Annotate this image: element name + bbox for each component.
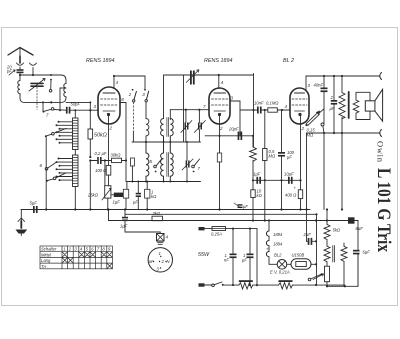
tube V2 grid2 bbox=[212, 104, 229, 106]
coil L5 osc bbox=[146, 102, 149, 142]
switch S5 bbox=[150, 159, 163, 173]
wire top anode run V1 bbox=[114, 75, 145, 77]
svg-text:RENS 1894: RENS 1894 bbox=[86, 58, 114, 64]
switch lower right bbox=[308, 273, 322, 281]
switch S3 bbox=[142, 76, 148, 102]
svg-text:E V, 0,21A: E V, 0,21A bbox=[270, 270, 290, 275]
svg-text:2: 2 bbox=[301, 126, 305, 131]
svg-text:µF: µF bbox=[242, 258, 247, 263]
svg-text:3: 3 bbox=[231, 96, 234, 101]
svg-text:8: 8 bbox=[121, 97, 124, 102]
svg-text:4: 4 bbox=[80, 247, 83, 252]
wire output bottom bbox=[307, 132, 380, 134]
connector output top bbox=[380, 73, 382, 80]
svg-text:U150B: U150B bbox=[292, 253, 305, 258]
wire V1 screen right bbox=[120, 103, 126, 161]
wire feedback 20pF run bbox=[205, 135, 253, 137]
wire V2 screen right bbox=[230, 101, 240, 136]
svg-text:2: 2 bbox=[330, 95, 334, 100]
resistor V2 cathode bbox=[217, 136, 221, 210]
coil L6 row2 bbox=[146, 142, 149, 182]
svg-text:9: 9 bbox=[108, 247, 111, 252]
svg-text:10nF: 10nF bbox=[254, 101, 264, 106]
wire drop mid bbox=[183, 75, 185, 142]
svg-text:4: 4 bbox=[285, 104, 288, 109]
svg-text:1: 1 bbox=[63, 247, 65, 252]
coil L4 bank2 bbox=[73, 150, 79, 210]
capacitor 0,2uF bbox=[90, 151, 111, 164]
svg-text:4: 4 bbox=[166, 235, 169, 240]
wire V2 anode-grid coupling bbox=[240, 109, 254, 111]
svg-text:5: 5 bbox=[150, 159, 153, 164]
tube V3 anode bbox=[295, 92, 305, 94]
capacitor 1uF below bus bbox=[120, 214, 160, 232]
pilot lamp EV 0,21A bbox=[270, 260, 291, 275]
tube V2 cathode bbox=[214, 110, 226, 112]
coil L3 bank1 bbox=[73, 110, 79, 149]
fuse 0,25A bbox=[205, 227, 258, 237]
electrolytic 8uF block bbox=[348, 217, 363, 231]
speaker bbox=[356, 89, 383, 121]
dial lamp bbox=[157, 232, 169, 244]
tube V1 grid1 bbox=[101, 98, 118, 100]
svg-text:40nF: 40nF bbox=[314, 83, 324, 88]
svg-text:M: M bbox=[149, 259, 153, 264]
tube V3 envelope bbox=[290, 88, 309, 124]
svg-text:400 Ω: 400 Ω bbox=[285, 193, 297, 198]
svg-text:5µF: 5µF bbox=[30, 201, 38, 206]
node tuned bottom bbox=[50, 101, 52, 103]
wire V2 anode up bbox=[218, 75, 220, 89]
resistor 10k bbox=[251, 189, 263, 221]
svg-text:µF: µF bbox=[330, 106, 335, 111]
svg-text:4: 4 bbox=[116, 80, 119, 85]
antenna socket A2 bbox=[30, 63, 37, 65]
trimmer C-t2 bbox=[194, 109, 205, 142]
svg-text:TA: TA bbox=[41, 264, 46, 269]
output transformer secondary bbox=[353, 100, 359, 113]
transformer lower right winding bbox=[341, 243, 347, 287]
capacitor 5uF series bbox=[30, 201, 38, 214]
svg-text:MΩ: MΩ bbox=[269, 154, 276, 159]
capacitor 40nF bbox=[314, 76, 328, 109]
svg-text:6µF: 6µF bbox=[363, 250, 371, 255]
svg-text:6: 6 bbox=[91, 247, 94, 252]
connector output bottom bbox=[380, 130, 382, 137]
coil L2 bbox=[64, 84, 66, 97]
wire V1 cathode down bbox=[108, 116, 110, 165]
capacitor 2uF coupling bbox=[330, 76, 338, 133]
svg-text:µF: µF bbox=[133, 200, 138, 205]
switch S7 bbox=[43, 108, 54, 118]
wire row2 bottom bus bbox=[127, 181, 201, 183]
wire S2 dashed drop bbox=[132, 102, 134, 131]
IF transformer T1 primary bbox=[161, 119, 164, 143]
output transformer primary bbox=[339, 76, 345, 133]
capacitor 50pF bbox=[66, 102, 81, 114]
IF transformer T1 secondary bbox=[170, 119, 173, 143]
wire speaker return drops bbox=[324, 133, 342, 210]
svg-text:kΩ: kΩ bbox=[257, 193, 263, 198]
switch arm S6 bbox=[40, 162, 58, 170]
svg-text:30kΩ: 30kΩ bbox=[111, 153, 122, 158]
svg-text:3: 3 bbox=[157, 267, 160, 272]
capacitor 1uF bbox=[253, 172, 261, 184]
svg-text:+: + bbox=[294, 186, 297, 191]
resistor 3k in W2 bbox=[152, 211, 163, 221]
svg-text:2: 2 bbox=[161, 259, 165, 264]
capacitor mains c1 bbox=[224, 228, 237, 287]
svg-text:7: 7 bbox=[46, 113, 49, 118]
wire bus W1 bbox=[125, 210, 317, 215]
wire V3 cathode down bbox=[300, 116, 302, 190]
svg-text:7: 7 bbox=[97, 247, 100, 252]
component row: resistor r-b bbox=[145, 181, 157, 210]
barretter U150B bbox=[291, 253, 316, 270]
capacitor mains c2 bbox=[242, 228, 254, 287]
potentiometer hum bbox=[313, 266, 330, 286]
capacitor 20pF antenna bbox=[6, 65, 24, 76]
svg-text:0,25A: 0,25A bbox=[211, 232, 222, 237]
svg-text:55W: 55W bbox=[198, 252, 210, 258]
svg-text:3: 3 bbox=[142, 92, 145, 97]
potentiometer 0,15M bbox=[305, 109, 324, 138]
capacitor 6uF bbox=[353, 221, 370, 287]
svg-text:BL 2: BL 2 bbox=[283, 58, 294, 64]
svg-text:N: N bbox=[167, 259, 171, 264]
switch arm S-bank1 bbox=[45, 128, 66, 137]
transformer lower left winding bbox=[324, 246, 330, 266]
heater resistor 2 bbox=[279, 280, 345, 289]
wire coil tap bbox=[60, 88, 66, 110]
component row: capacitor c-b bbox=[133, 181, 141, 210]
capacitor 10uF bbox=[284, 172, 297, 191]
transformer lower core bbox=[333, 246, 335, 263]
switch bank 1 contacts bbox=[56, 121, 73, 144]
wire mains right drop bbox=[256, 229, 258, 286]
X marks Lang bbox=[62, 257, 68, 263]
svg-text:3: 3 bbox=[94, 104, 97, 109]
trimmer C-t3 bbox=[182, 141, 193, 182]
capacitor 2uF lower bbox=[303, 232, 318, 245]
svg-text:µF: µF bbox=[243, 204, 248, 209]
resistor 100 ohm cathode bbox=[90, 161, 110, 210]
svg-text:µF: µF bbox=[287, 155, 292, 160]
svg-text:1: 1 bbox=[159, 251, 161, 256]
wire bottom right run bbox=[345, 254, 358, 286]
svg-text:BL2: BL2 bbox=[274, 253, 282, 258]
switch mains bbox=[205, 282, 239, 287]
resistor zigzag anode load bbox=[250, 147, 257, 190]
capacitor 20pF bbox=[228, 127, 242, 141]
heater resistor 1 bbox=[239, 280, 279, 289]
wire right column main bbox=[316, 214, 318, 285]
wire A2 down bbox=[32, 68, 34, 76]
switch S4 row2 bbox=[192, 159, 201, 172]
svg-text:1µF: 1µF bbox=[120, 224, 128, 229]
svg-text:7: 7 bbox=[203, 104, 206, 109]
tube V1 grid2 bbox=[101, 104, 118, 106]
svg-text:0,2 µF: 0,2 µF bbox=[95, 151, 107, 156]
bus junction dots bbox=[45, 208, 47, 210]
resistor 0,1M grid stopper bbox=[266, 101, 290, 113]
node antenna junction bbox=[19, 74, 21, 76]
mains terminal top bbox=[199, 227, 205, 230]
wire V1 anode up bbox=[113, 76, 115, 88]
tube V2 envelope bbox=[209, 88, 230, 124]
wire AVC row bbox=[253, 179, 301, 181]
table switch positions bbox=[40, 246, 112, 269]
tube V3 grid1 bbox=[292, 98, 307, 100]
wire link row1 bottoms bbox=[132, 141, 201, 143]
antenna socket A1 bbox=[17, 63, 24, 65]
svg-text:5kΩ: 5kΩ bbox=[333, 228, 341, 233]
capacitor 10nF coupling bbox=[254, 101, 268, 114]
svg-text:2: 2 bbox=[68, 247, 72, 252]
wire output top bbox=[306, 75, 380, 77]
wire V3 anode up bbox=[305, 76, 307, 90]
svg-text:50pF: 50pF bbox=[71, 102, 81, 107]
svg-text:10µF: 10µF bbox=[284, 172, 294, 177]
wire bus W2 bbox=[109, 210, 359, 221]
switch S2 bbox=[128, 89, 137, 102]
svg-text:1894: 1894 bbox=[273, 232, 283, 237]
svg-text:8: 8 bbox=[102, 247, 105, 252]
svg-text:RENS 1894: RENS 1894 bbox=[204, 58, 232, 64]
svg-text:1µF: 1µF bbox=[253, 172, 261, 177]
resistor 50k grid leak bbox=[88, 101, 107, 158]
svg-text:2: 2 bbox=[128, 92, 132, 97]
tube V1 anode bbox=[103, 92, 115, 94]
wire drop to switch 7 bbox=[42, 102, 44, 111]
component row: capacitor c-a block bbox=[111, 193, 123, 205]
tube V3 cathode bbox=[295, 110, 305, 112]
svg-text:1894: 1894 bbox=[273, 242, 283, 247]
tube V1 cathode bbox=[103, 110, 115, 112]
tuned circuit frame wires bbox=[20, 75, 90, 102]
resistor 400 ohm bbox=[285, 190, 303, 210]
svg-text:nF: nF bbox=[224, 258, 229, 263]
svg-text:3: 3 bbox=[308, 83, 311, 88]
svg-text:20pF: 20pF bbox=[228, 127, 239, 132]
trimmer capacitor top bbox=[186, 70, 199, 85]
switch S1 top bbox=[49, 74, 52, 92]
IF transformer T1 core bbox=[167, 118, 169, 137]
main bus A bbox=[21, 209, 310, 211]
coil L1 antenna bbox=[18, 81, 20, 97]
tube V3 grid2 bbox=[292, 104, 307, 106]
svg-text:2µF: 2µF bbox=[303, 232, 312, 237]
svg-text:1µF: 1µF bbox=[113, 200, 121, 205]
svg-text:6: 6 bbox=[40, 163, 43, 168]
resistor 0,5M bbox=[263, 109, 276, 221]
svg-text:kΩ: kΩ bbox=[151, 194, 157, 199]
switch arm S-bank2b bbox=[46, 173, 66, 182]
potentiometer cathode bbox=[87, 161, 111, 210]
svg-text:Schalter: Schalter bbox=[41, 247, 57, 252]
svg-text:7: 7 bbox=[198, 166, 201, 171]
tube V2 anode bbox=[214, 92, 226, 94]
antenna bbox=[8, 48, 33, 64]
svg-text:50kΩ: 50kΩ bbox=[94, 133, 107, 139]
svg-text:4: 4 bbox=[221, 80, 224, 85]
svg-text:5: 5 bbox=[86, 247, 89, 252]
svg-text:8µF: 8µF bbox=[356, 226, 364, 231]
svg-text:Mittel: Mittel bbox=[41, 252, 52, 257]
tube V2 grid1 bbox=[212, 98, 229, 100]
wire output return drop bbox=[306, 133, 308, 241]
variable capacitor C1 tuning bbox=[29, 79, 45, 110]
trimmer C-t1 bbox=[181, 109, 192, 142]
wire V2 cathode down bbox=[219, 116, 221, 136]
ground earth bbox=[16, 210, 28, 236]
X marks Mittel bbox=[62, 252, 68, 258]
tube V1 envelope bbox=[98, 87, 120, 124]
X marks TA bbox=[107, 263, 113, 269]
wire bank arm bus bbox=[45, 136, 47, 209]
resistor small S2 bbox=[130, 158, 134, 166]
wire top anode run 2 bbox=[164, 75, 254, 119]
wire anode node drop bbox=[252, 74, 255, 148]
svg-text:3: 3 bbox=[74, 247, 77, 252]
wire grid V2 bbox=[170, 109, 209, 111]
capacitor small on bus bbox=[234, 203, 248, 209]
svg-text:Owin: Owin bbox=[376, 141, 386, 163]
svg-text:L 101 G Trix: L 101 G Trix bbox=[373, 168, 394, 252]
IF transformer T2 secondary bbox=[170, 142, 173, 182]
svg-text:3kΩ: 3kΩ bbox=[153, 211, 161, 216]
svg-text:25kΩ: 25kΩ bbox=[87, 193, 99, 198]
component row: resistor r-a bbox=[123, 189, 128, 209]
output transformer core bbox=[348, 92, 350, 118]
resistor 30k screen bbox=[89, 153, 126, 163]
IF transformer T2 core bbox=[167, 153, 169, 177]
filter choke upper bbox=[324, 210, 341, 247]
switch bank 2 contacts bbox=[56, 158, 73, 182]
svg-text:2: 2 bbox=[109, 126, 113, 131]
svg-text:0,1MΩ: 0,1MΩ bbox=[266, 101, 279, 106]
capacitor 100uF bbox=[278, 110, 295, 210]
svg-text:Lang: Lang bbox=[41, 258, 51, 263]
heater chain column bbox=[266, 221, 283, 265]
node V1 grid bbox=[89, 109, 91, 111]
dial circle bbox=[148, 248, 172, 272]
wire grid line to tube V1 bbox=[54, 109, 66, 112]
mains terminal bottom bbox=[199, 283, 205, 286]
IF transformer T2 primary bbox=[161, 142, 164, 182]
